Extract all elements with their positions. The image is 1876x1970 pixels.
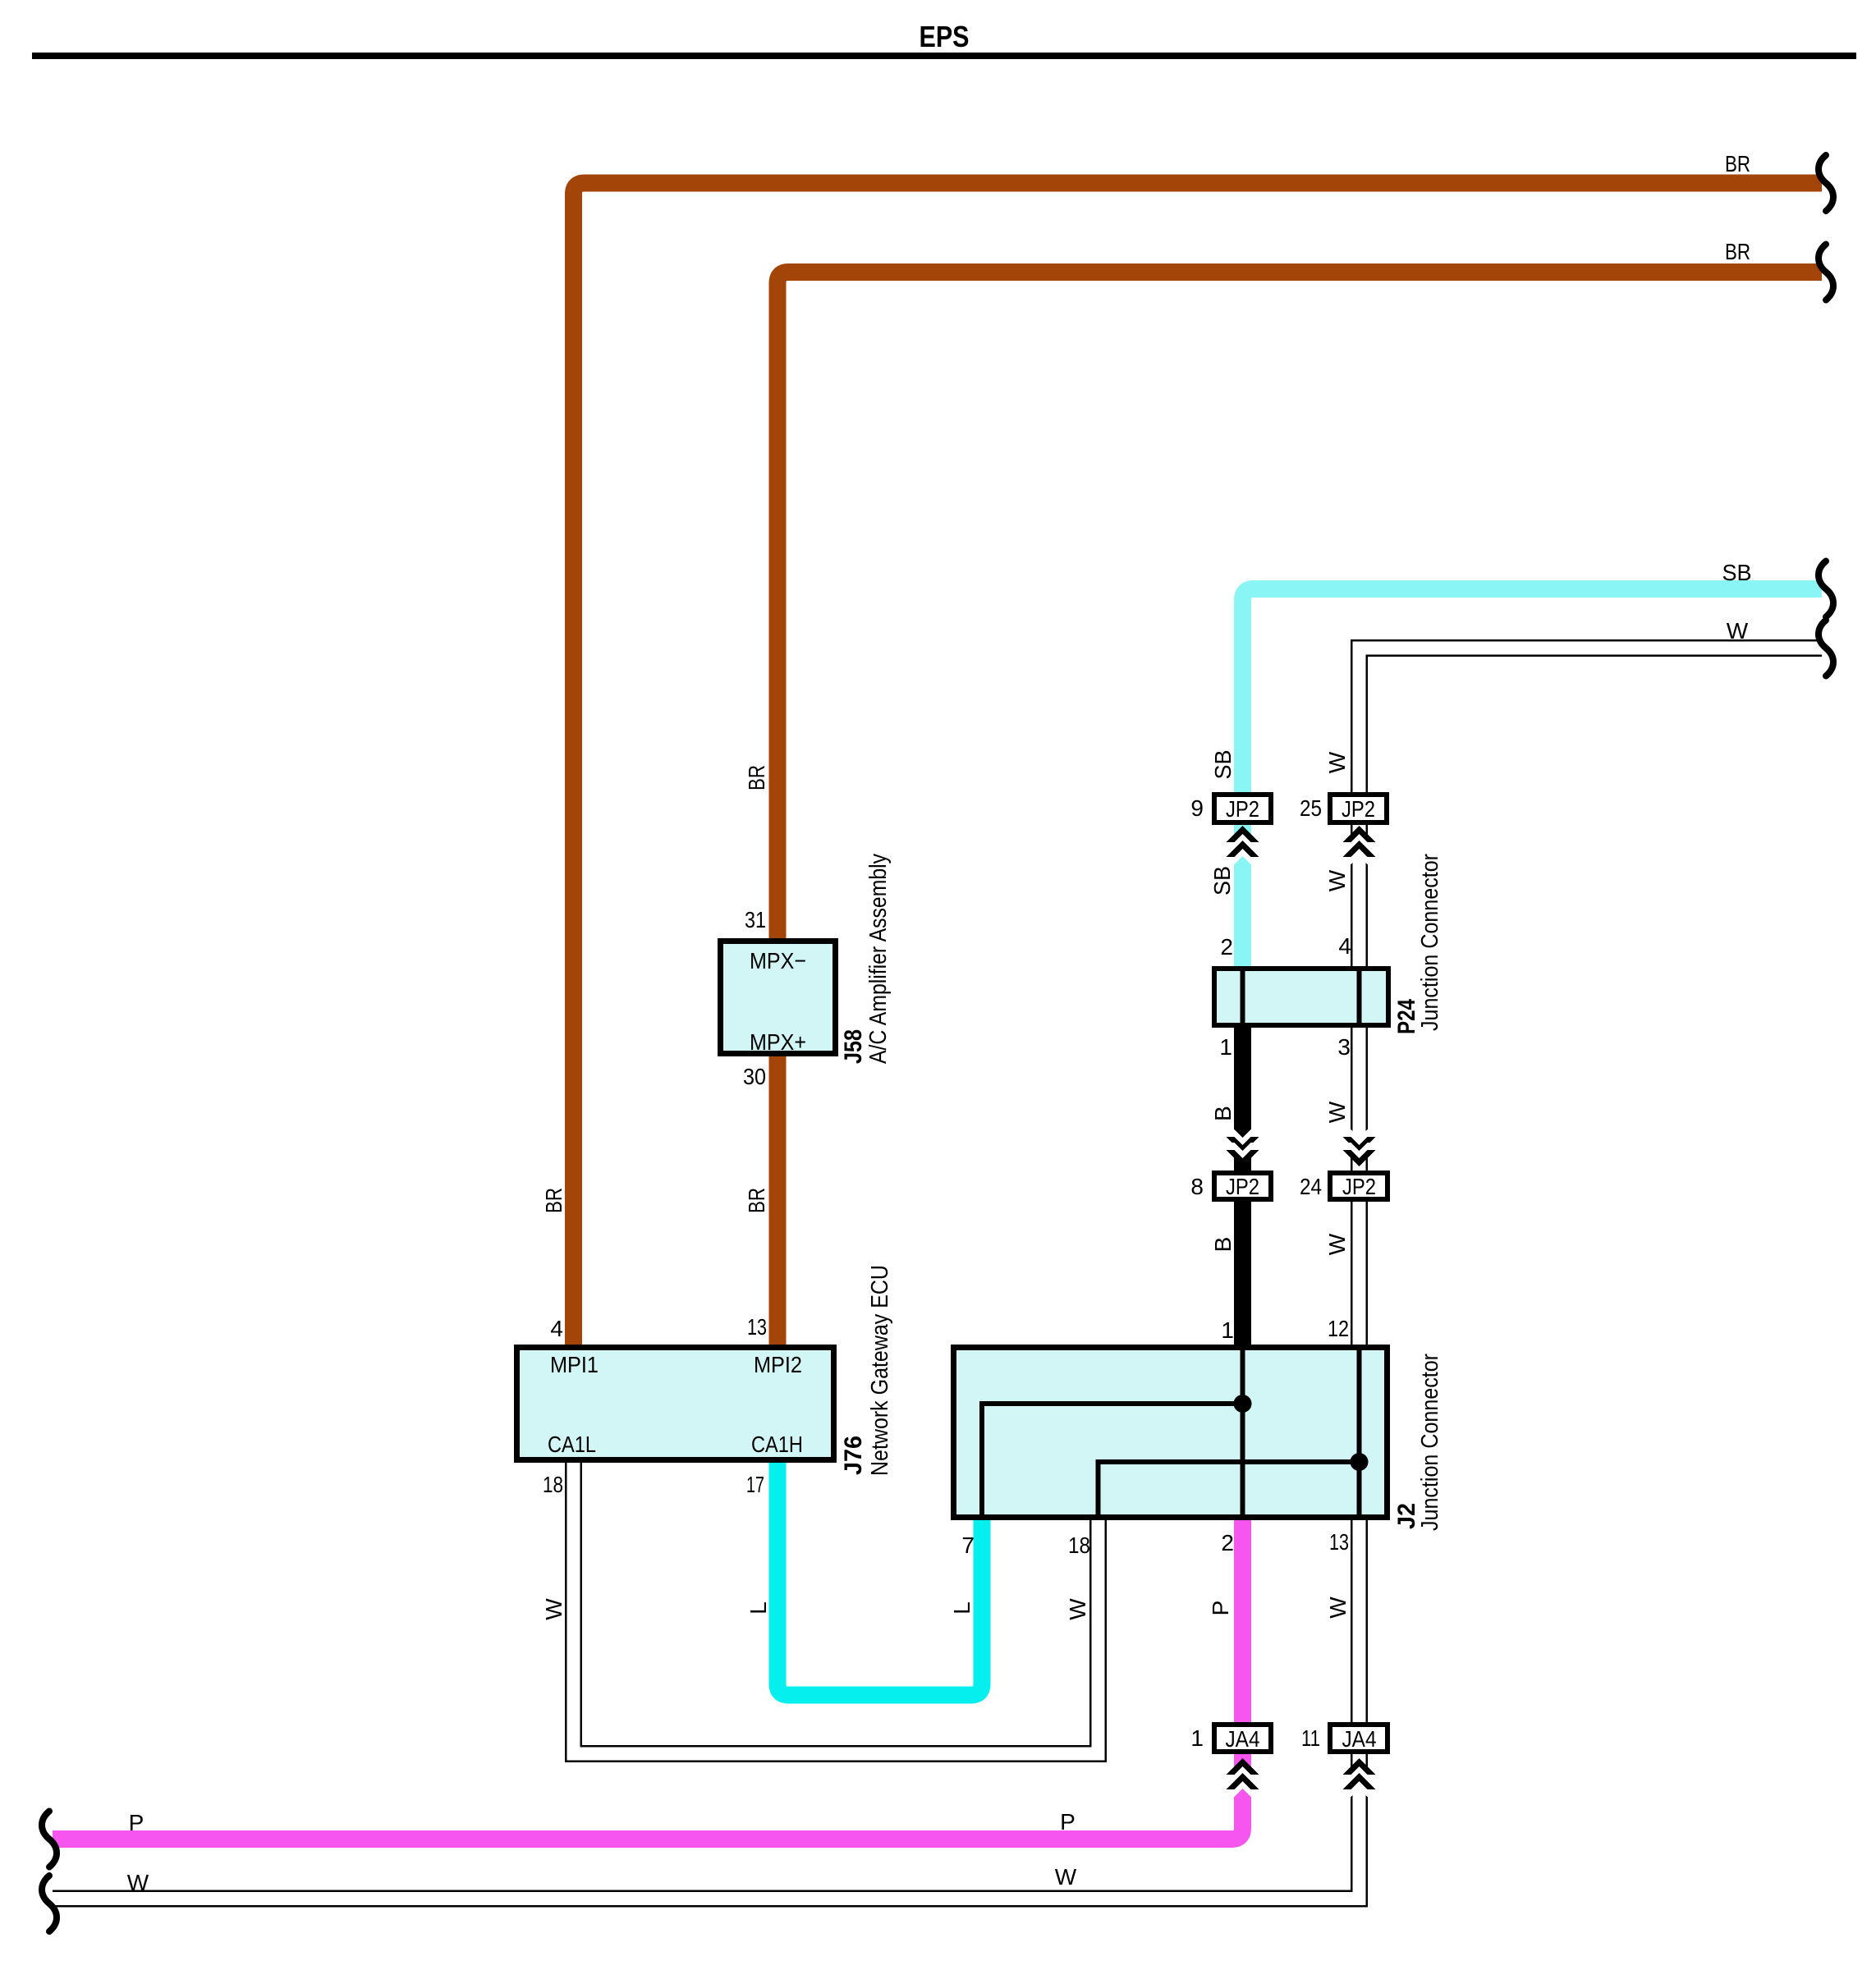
connector JA4 pin 1 <box>1214 1725 1271 1752</box>
svg-text:2: 2 <box>1221 1530 1234 1555</box>
svg-text:BR: BR <box>1725 151 1750 176</box>
svg-text:W: W <box>1324 869 1350 891</box>
connector J76 Network Gateway ECU <box>517 1348 834 1460</box>
svg-text:JP2: JP2 <box>1342 1174 1376 1199</box>
svg-text:24: 24 <box>1300 1174 1322 1199</box>
break symbol SB right <box>1819 561 1833 617</box>
svg-text:W: W <box>1324 1233 1350 1255</box>
chevron under JA4 11 (pointing up) <box>1343 1758 1376 1797</box>
wire P (pink: J2 pin 2 down through JA4 1, left to break) <box>53 1517 1243 1839</box>
svg-text:W: W <box>127 1870 149 1895</box>
connector J2 Junction Connector <box>954 1347 1388 1518</box>
wire L (cyan: J76 pin 17 down, right, up to J2 pin 7) <box>777 1459 982 1695</box>
svg-text:W: W <box>1325 1597 1351 1619</box>
svg-text:1: 1 <box>1190 1725 1204 1751</box>
svg-text:JA4: JA4 <box>1226 1726 1260 1752</box>
wire B (black: P24 pin 1 down through JP2 8 to J2 pin 1) <box>1234 1024 1251 1348</box>
svg-text:BR: BR <box>1725 239 1750 264</box>
svg-text:L: L <box>745 1601 771 1615</box>
wire W mid (white outlined: P24 pin 3 down through JP2 24 to J2 pin 12) <box>1351 1024 1368 1348</box>
wire BR1 (MPX- branch: top horizontal to J76 pin 4) <box>574 183 1823 1348</box>
connector JP2 pin 25 <box>1330 795 1387 822</box>
svg-text:P: P <box>1208 1601 1233 1616</box>
svg-text:13: 13 <box>1329 1529 1349 1555</box>
break symbol W right <box>1819 621 1833 676</box>
svg-text:17: 17 <box>746 1472 764 1497</box>
svg-text:BR: BR <box>744 1188 769 1213</box>
svg-text:W: W <box>1727 618 1749 644</box>
svg-text:A/C Amplifier Assembly: A/C Amplifier Assembly <box>865 854 892 1064</box>
svg-text:9: 9 <box>1190 795 1204 821</box>
svg-text:18: 18 <box>543 1472 563 1497</box>
svg-text:JP2: JP2 <box>1342 796 1375 822</box>
svg-text:JP2: JP2 <box>1226 796 1259 822</box>
title rule <box>32 53 1856 59</box>
break symbol P left <box>42 1812 57 1867</box>
svg-text:1: 1 <box>1221 1317 1234 1343</box>
connector JP2 pin 24 <box>1330 1173 1388 1199</box>
connector J58 A/C Amplifier Assembly <box>721 941 836 1056</box>
svg-text:SB: SB <box>1722 560 1752 585</box>
connector JP2 pin 9 <box>1214 795 1271 822</box>
connector JP2 pin 8 <box>1214 1173 1271 1199</box>
chevron under JP2 25 (pointing up) <box>1343 826 1376 864</box>
svg-text:JA4: JA4 <box>1342 1726 1377 1752</box>
svg-text:3: 3 <box>1337 1034 1351 1060</box>
wire BR2 (MPX+ branch: horizontal to J58 pin 31/30 then J76 pin 13) <box>777 273 1822 1349</box>
svg-text:P: P <box>129 1810 144 1835</box>
chevron under JP2 9 (pointing up) <box>1227 826 1259 864</box>
svg-text:Network Gateway ECU: Network Gateway ECU <box>867 1265 893 1476</box>
svg-text:25: 25 <box>1300 795 1322 821</box>
svg-text:MPI1: MPI1 <box>550 1352 599 1377</box>
wire W loop (white outlined: J76 pin 18 down, right, up to J2 pin 18) <box>574 1459 1099 1754</box>
svg-text:W: W <box>541 1598 566 1620</box>
chevron above JP2 8 (pointing down) <box>1227 1129 1259 1166</box>
svg-text:W: W <box>1324 751 1350 773</box>
svg-text:12: 12 <box>1328 1316 1349 1341</box>
svg-text:L: L <box>949 1601 975 1615</box>
svg-text:4: 4 <box>1338 933 1351 959</box>
svg-text:MPX+: MPX+ <box>750 1029 806 1055</box>
wire W top (white, outlined: from right break down to JP2 25 and P24 pin 4) <box>1360 648 1823 970</box>
break symbol BR2 right <box>1819 245 1833 300</box>
svg-text:W: W <box>1055 1864 1077 1890</box>
svg-text:EPS: EPS <box>920 20 970 53</box>
svg-text:W: W <box>1324 1101 1350 1123</box>
chevron above JP2 24 (pointing down) <box>1343 1129 1376 1166</box>
svg-text:J76: J76 <box>840 1436 867 1475</box>
svg-text:MPX−: MPX− <box>750 948 806 974</box>
svg-text:Junction Connector: Junction Connector <box>1417 1354 1443 1531</box>
svg-text:CA1L: CA1L <box>548 1432 596 1457</box>
svg-text:4: 4 <box>550 1316 563 1341</box>
break symbol W left <box>42 1876 57 1931</box>
svg-text:CA1H: CA1H <box>751 1432 803 1457</box>
wire SB (horizontal from right break, down to JP2 9 and P24 pin 2) <box>1243 589 1823 970</box>
svg-text:JP2: JP2 <box>1226 1174 1259 1199</box>
svg-text:30: 30 <box>743 1064 766 1089</box>
svg-text:7: 7 <box>961 1532 975 1558</box>
svg-text:11: 11 <box>1301 1725 1320 1751</box>
break symbol BR1 right <box>1819 155 1833 211</box>
svg-text:Junction Connector: Junction Connector <box>1417 854 1443 1031</box>
svg-text:J58: J58 <box>840 1029 867 1064</box>
svg-text:18: 18 <box>1068 1532 1090 1558</box>
svg-text:SB: SB <box>1209 866 1235 896</box>
svg-text:2: 2 <box>1220 934 1233 960</box>
svg-text:B: B <box>1210 1106 1236 1121</box>
svg-text:8: 8 <box>1190 1174 1204 1199</box>
svg-text:13: 13 <box>747 1314 767 1340</box>
svg-text:SB: SB <box>1210 750 1236 780</box>
svg-text:P: P <box>1060 1809 1076 1835</box>
svg-text:1: 1 <box>1219 1034 1232 1060</box>
connector JA4 pin 11 <box>1330 1725 1388 1752</box>
connector P24 Junction Connector <box>1214 969 1388 1025</box>
svg-text:W: W <box>1065 1598 1090 1620</box>
chevron under JA4 1 (pointing up) <box>1227 1758 1259 1797</box>
svg-text:BR: BR <box>541 1188 566 1213</box>
svg-text:B: B <box>1210 1237 1236 1253</box>
wire W bottom (white outlined: J2 pin 13 down through JA4 11, left to break) <box>53 1517 1360 1899</box>
svg-text:31: 31 <box>745 907 766 932</box>
svg-text:MPI2: MPI2 <box>754 1352 802 1377</box>
svg-text:BR: BR <box>744 765 769 790</box>
